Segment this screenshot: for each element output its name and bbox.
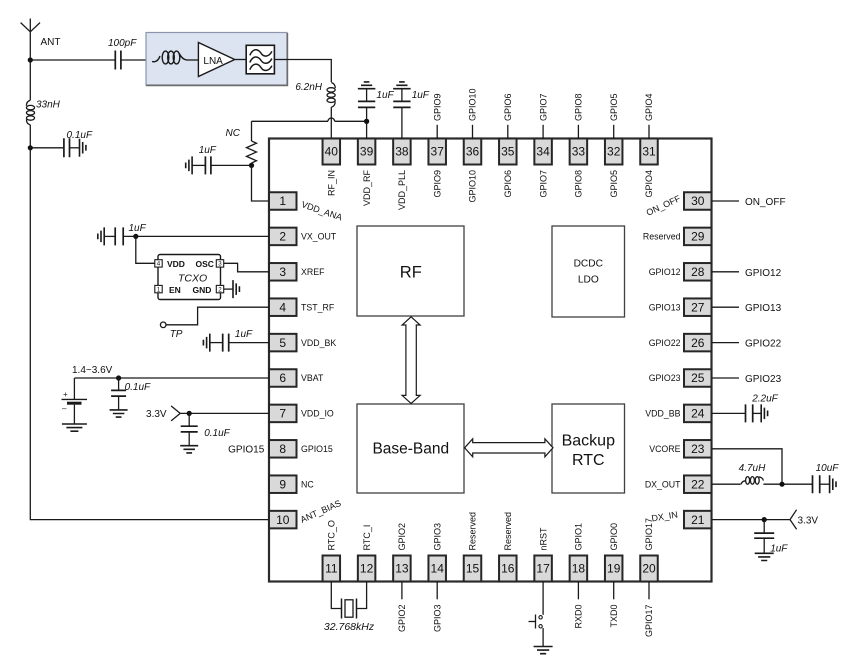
wire VCORE to DX_OUT node (712, 449, 783, 484)
svg-text:4: 4 (157, 261, 161, 268)
svg-text:GPIO5: GPIO5 (609, 170, 619, 198)
svg-text:28: 28 (691, 265, 705, 279)
svg-text:1uF: 1uF (412, 90, 430, 101)
wire/net GPIO8 above pin 33 (574, 93, 584, 139)
pin 1 (VDD_ANA) (269, 192, 344, 222)
wire/net GPIO7 above pin 34 (538, 93, 548, 139)
svg-text:GND: GND (193, 285, 212, 295)
svg-text:14: 14 (431, 562, 445, 576)
svg-text:1.4~3.6V: 1.4~3.6V (72, 365, 113, 376)
inductor in LNA block (152, 56, 160, 62)
svg-text:1uF: 1uF (376, 90, 394, 101)
svg-text:21: 21 (691, 513, 705, 527)
svg-text:22: 22 (691, 477, 705, 491)
inductor 6.2nH (331, 83, 335, 89)
svg-text:VDD_BB: VDD_BB (645, 409, 680, 419)
svg-text:GPIO5: GPIO5 (609, 93, 619, 121)
node VDD_IO junction (187, 411, 192, 416)
pin 24 (VDD_BB) (645, 405, 711, 423)
svg-text:ON_OFF: ON_OFF (745, 197, 786, 208)
battery 1.4~3.6V (62, 378, 88, 424)
svg-text:GPIO10: GPIO10 (468, 88, 478, 121)
pin 5 (VDD_BK) (269, 334, 336, 352)
node junction at VDD_RF cap (364, 119, 369, 124)
wire TCXO OSC to pin 3 XREF (224, 263, 269, 272)
svg-text:RTC_O: RTC_O (327, 520, 337, 550)
pin 17 (nRST) (534, 527, 552, 582)
svg-text:12: 12 (360, 562, 374, 576)
pin 18 (GPIO1) (570, 523, 588, 582)
ground nRST (534, 647, 553, 654)
LNA front-end block (146, 33, 287, 86)
supply 3.3V at VDD_IO (146, 406, 180, 421)
capacitor 1uF at VDD_BK (203, 334, 269, 352)
svg-text:1: 1 (279, 194, 286, 208)
block RF (357, 226, 464, 316)
svg-text:Backup: Backup (562, 432, 615, 449)
svg-text:GPIO17: GPIO17 (644, 605, 654, 638)
svg-text:10: 10 (276, 513, 290, 527)
svg-text:GPIO4: GPIO4 (644, 170, 654, 198)
pin 25 (GPIO23) (649, 369, 712, 387)
test point TP (160, 322, 166, 328)
svg-text:9: 9 (279, 477, 286, 491)
supply 3.3V at DX_IN (790, 510, 818, 530)
pin 38 (VDD_PLL) (393, 139, 411, 211)
svg-text:VCORE: VCORE (649, 444, 680, 454)
node 33nH/cap junction (28, 145, 33, 150)
pin 14 (GPIO3) (428, 523, 446, 582)
pin 30 (ON_OFF) (645, 192, 712, 218)
svg-text:GPIO2: GPIO2 (397, 523, 407, 551)
svg-text:LDO: LDO (578, 275, 599, 286)
svg-text:+: + (63, 390, 68, 399)
svg-text:30: 30 (691, 194, 705, 208)
pin 21 (DX_IN) (651, 509, 712, 528)
svg-text:GPIO10: GPIO10 (468, 170, 478, 203)
pin 40 (RF_IN) (323, 139, 341, 197)
svg-text:4.7uH: 4.7uH (739, 463, 766, 474)
arrow RF to Base-Band (402, 317, 420, 404)
svg-text:6.2nH: 6.2nH (295, 82, 322, 93)
block Backup RTC (552, 404, 625, 493)
svg-text:OSC: OSC (196, 259, 214, 269)
svg-text:20: 20 (642, 562, 656, 576)
inductor 4.7uH (712, 477, 813, 485)
pin 29 (Reserved) (643, 228, 712, 246)
svg-text:GPIO17: GPIO17 (644, 518, 654, 551)
node DX_OUT junction (779, 482, 784, 487)
block DCDC LDO (552, 226, 625, 317)
svg-text:38: 38 (395, 145, 409, 159)
svg-text:6: 6 (279, 371, 286, 385)
svg-text:18: 18 (572, 562, 586, 576)
wire/net GPIO6 above pin 35 (503, 93, 513, 139)
svg-text:GPIO23: GPIO23 (649, 373, 681, 383)
svg-text:GPIO13: GPIO13 (745, 303, 782, 314)
svg-text:GPIO22: GPIO22 (745, 339, 782, 350)
pin 39 (VDD_RF) (358, 139, 376, 207)
svg-text:RF_IN: RF_IN (327, 170, 337, 196)
capacitor 1uF at VX_OUT (98, 227, 269, 245)
wire/net GPIO5 above pin 32 (609, 93, 619, 139)
svg-text:33nH: 33nH (36, 100, 61, 111)
svg-text:GPIO3: GPIO3 (432, 523, 442, 551)
svg-text:GPIO6: GPIO6 (503, 93, 513, 121)
svg-text:NC: NC (226, 128, 241, 139)
svg-text:GPIO2: GPIO2 (397, 605, 407, 633)
svg-text:Reserved: Reserved (643, 232, 681, 242)
svg-text:0.1uF: 0.1uF (204, 428, 230, 439)
pin 27 (GPIO13) (649, 298, 712, 316)
svg-text:3.3V: 3.3V (798, 516, 819, 527)
pin 2 (VX_OUT) (269, 228, 337, 246)
svg-text:GPIO8: GPIO8 (574, 170, 584, 198)
svg-text:RTC: RTC (572, 452, 605, 469)
svg-text:Reserved: Reserved (503, 512, 513, 551)
pin 4 (TST_RF) (269, 298, 335, 316)
svg-text:VDD: VDD (167, 259, 185, 269)
svg-text:17: 17 (536, 562, 550, 576)
svg-text:2: 2 (218, 286, 222, 293)
capacitor 1uF at DX_IN (754, 520, 774, 554)
svg-text:TCXO: TCXO (178, 273, 207, 285)
wire VDD_IO (180, 412, 269, 414)
svg-text:VBAT: VBAT (301, 373, 324, 383)
svg-text:VDD_IO: VDD_IO (301, 409, 334, 419)
svg-text:GPIO15: GPIO15 (301, 444, 333, 454)
wire/net GPIO10 above pin 36 (468, 88, 478, 139)
svg-text:NC: NC (301, 479, 314, 489)
wire ON_OFF (712, 200, 740, 202)
svg-text:24: 24 (691, 407, 705, 421)
svg-text:GPIO15: GPIO15 (228, 445, 265, 456)
svg-text:1uF: 1uF (235, 329, 253, 340)
svg-text:32.768kHz: 32.768kHz (324, 621, 375, 633)
wire/net GPIO4 above pin 31 (644, 93, 654, 139)
svg-text:DCDC: DCDC (574, 259, 603, 270)
pin 36 (GPIO10) (464, 139, 482, 203)
pin 34 (GPIO7) (534, 139, 552, 198)
svg-text:15: 15 (466, 562, 480, 576)
pin 9 (NC) (269, 475, 314, 493)
wire TST_RF to test point (166, 307, 269, 325)
node VBAT junction (116, 375, 121, 380)
svg-text:Reserved: Reserved (468, 512, 478, 551)
wire coil to amp (187, 59, 198, 61)
pin 23 (VCORE) (649, 440, 711, 458)
block Base-Band (357, 404, 464, 493)
wire/net GPIO2 below pin 13 (397, 582, 407, 633)
svg-text:EN: EN (169, 285, 181, 295)
svg-text:VX_OUT: VX_OUT (301, 232, 337, 242)
wire ANT_BIAS rail to pin 10 (30, 148, 269, 520)
capacitor 2.2uF at VDD_BB (712, 404, 768, 422)
wire amp to filter (235, 59, 247, 61)
svg-text:GPIO0: GPIO0 (609, 523, 619, 551)
svg-text:GPIO9: GPIO9 (432, 93, 442, 121)
pin 12 (RTC_I) (358, 525, 376, 582)
svg-text:ANT: ANT (41, 37, 61, 48)
capacitor 1uF at VDD_ANA (186, 156, 252, 174)
pin 16 (Reserved) (499, 512, 517, 582)
antenna ANT (21, 19, 40, 61)
svg-text:VDD_RF: VDD_RF (362, 170, 372, 207)
svg-text:GPIO6: GPIO6 (503, 170, 513, 198)
svg-text:GPIO3: GPIO3 (432, 605, 442, 633)
pin 11 (RTC_O) (323, 520, 341, 581)
svg-text:TST_RF: TST_RF (301, 302, 335, 312)
wire 6.2nH to pin 40 (330, 107, 332, 139)
svg-text:DX_OUT: DX_OUT (645, 479, 681, 489)
svg-text:31: 31 (642, 145, 656, 159)
svg-text:2.2uF: 2.2uF (751, 394, 778, 405)
pin 6 (VBAT) (269, 369, 324, 387)
wire/net GPIO17 below pin 20 (644, 582, 654, 638)
svg-text:GPIO9: GPIO9 (432, 170, 442, 198)
capacitor 0.1uF at VBAT (111, 378, 126, 410)
svg-text:nRST: nRST (538, 527, 548, 551)
capacitor 100pF (115, 51, 121, 70)
svg-text:VDD_PLL: VDD_PLL (397, 170, 407, 210)
node VX_OUT junction (133, 234, 138, 239)
pin 19 (GPIO0) (605, 523, 623, 582)
node pin39 cap junction (364, 119, 369, 124)
svg-text:RXD0: RXD0 (574, 605, 584, 629)
pin 15 (Reserved) (464, 512, 482, 582)
ground battery (62, 424, 87, 431)
capacitor 1uF at pin 38 (393, 82, 411, 140)
svg-text:29: 29 (691, 230, 705, 244)
pin 31 (GPIO4) (640, 139, 658, 198)
wire GPIO23 (712, 377, 740, 379)
pin 22 (DX_OUT) (645, 475, 712, 493)
node resistor/cap junction (249, 163, 254, 168)
wire GPIO12 (712, 271, 740, 273)
node DX_IN junction (762, 517, 767, 522)
node antenna junction (28, 57, 33, 62)
svg-text:10uF: 10uF (816, 463, 840, 474)
wire VBAT rail (74, 377, 269, 379)
pin 32 (GPIO5) (605, 139, 623, 198)
svg-text:RF: RF (400, 264, 422, 282)
pin 33 (GPIO8) (570, 139, 588, 198)
svg-text:GPIO7: GPIO7 (538, 170, 548, 198)
svg-text:40: 40 (325, 145, 339, 159)
pin 37 (GPIO9) (428, 139, 446, 198)
pin 26 (GPIO22) (649, 334, 712, 352)
wire GPIO13 (712, 306, 740, 308)
wire/net GPIO3 below pin 14 (432, 582, 442, 633)
ground VBAT cap (110, 410, 128, 417)
pin 10 (ANT_BIAS) (269, 498, 343, 528)
svg-text:RTC_I: RTC_I (362, 525, 372, 551)
pin 20 (GPIO17) (640, 518, 658, 582)
svg-text:2: 2 (279, 230, 286, 244)
svg-text:4: 4 (279, 300, 286, 314)
pin 28 (GPIO12) (649, 263, 712, 281)
svg-text:23: 23 (691, 442, 705, 456)
svg-text:3: 3 (279, 265, 286, 279)
wire DX_IN (712, 519, 791, 521)
ground at TCXO GND (224, 280, 240, 298)
svg-text:8: 8 (279, 442, 286, 456)
svg-text:GPIO12: GPIO12 (649, 267, 681, 277)
svg-text:GPIO8: GPIO8 (574, 93, 584, 121)
svg-text:GPIO23: GPIO23 (745, 374, 782, 385)
svg-text:5: 5 (279, 336, 286, 350)
svg-text:VDD_BK: VDD_BK (301, 338, 336, 348)
svg-text:1: 1 (157, 286, 161, 293)
svg-text:25: 25 (691, 371, 705, 385)
svg-text:3: 3 (218, 261, 222, 268)
wire/net GPIO9 above pin 37 (432, 93, 442, 139)
svg-text:GPIO1: GPIO1 (574, 523, 584, 551)
filter (SAW) box (246, 45, 274, 74)
svg-text:1uF: 1uF (199, 145, 217, 156)
wire filter to block edge (274, 59, 287, 61)
svg-text:0.1uF: 0.1uF (67, 130, 93, 141)
op-amp LNA triangle (198, 43, 234, 77)
svg-text:GPIO13: GPIO13 (649, 302, 681, 312)
capacitor 0.1uF at VDD_IO (181, 413, 198, 445)
wire LNA out to 6.2nH (287, 60, 331, 83)
ground VDD_IO cap (180, 446, 198, 453)
svg-text:100pF: 100pF (108, 38, 137, 49)
svg-text:GPIO7: GPIO7 (538, 93, 548, 121)
capacitor 1uF at pin 39 (358, 82, 376, 140)
svg-text:37: 37 (431, 145, 445, 159)
svg-text:1uF: 1uF (129, 223, 147, 234)
svg-text:0.1uF: 0.1uF (125, 382, 151, 393)
wire/net RXD0 below pin 18 (574, 582, 584, 629)
svg-text:1uF: 1uF (770, 544, 788, 555)
svg-text:GPIO12: GPIO12 (745, 268, 782, 279)
capacitor 0.1uF at antenna bias (30, 138, 86, 157)
wire junction to pin 1 (252, 165, 270, 201)
svg-text:16: 16 (501, 562, 515, 576)
pin 13 (GPIO2) (393, 523, 411, 582)
wire C100pF to LNA block (121, 59, 152, 61)
wire NC resistor net with crossover hop (252, 118, 367, 121)
svg-text:GPIO22: GPIO22 (649, 338, 681, 348)
pin 8 (GPIO15) (269, 440, 333, 458)
svg-text:LNA: LNA (203, 56, 223, 67)
wire GPIO22 (712, 342, 740, 344)
svg-text:Base-Band: Base-Band (372, 441, 449, 458)
svg-text:39: 39 (360, 145, 374, 159)
svg-text:–: – (62, 404, 67, 413)
switch nRST pushbutton (529, 582, 544, 647)
svg-text:TXD0: TXD0 (609, 605, 619, 628)
svg-text:3.3V: 3.3V (146, 409, 167, 420)
svg-text:27: 27 (691, 300, 705, 314)
svg-text:13: 13 (395, 562, 409, 576)
pin 3 (XREF) (269, 263, 325, 281)
crystal 32.768kHz (331, 582, 366, 619)
wire junction to TCXO VDD (136, 236, 155, 263)
wire antenna to C 100pF (30, 59, 115, 61)
svg-text:33: 33 (572, 145, 586, 159)
svg-text:36: 36 (466, 145, 480, 159)
TCXO module (155, 255, 224, 300)
svg-text:35: 35 (501, 145, 515, 159)
resistor NC (247, 121, 257, 165)
svg-text:XREF: XREF (301, 267, 325, 277)
inductor 33nH (26, 60, 34, 148)
svg-text:32: 32 (607, 145, 621, 159)
svg-text:TP: TP (170, 329, 183, 340)
svg-text:26: 26 (691, 336, 705, 350)
svg-text:11: 11 (325, 562, 338, 576)
wire/net TXD0 below pin 19 (609, 582, 619, 628)
pin 7 (VDD_IO) (269, 405, 334, 423)
arrow Base-Band to Backup RTC (465, 439, 553, 457)
svg-text:GPIO4: GPIO4 (644, 93, 654, 121)
capacitor 10uF at DX_OUT (813, 475, 837, 493)
IC body outline (269, 139, 712, 582)
ground DX_IN cap (755, 553, 774, 560)
svg-text:7: 7 (279, 407, 286, 421)
pin 35 (GPIO6) (499, 139, 517, 198)
svg-text:34: 34 (536, 145, 550, 159)
svg-text:19: 19 (607, 562, 621, 576)
